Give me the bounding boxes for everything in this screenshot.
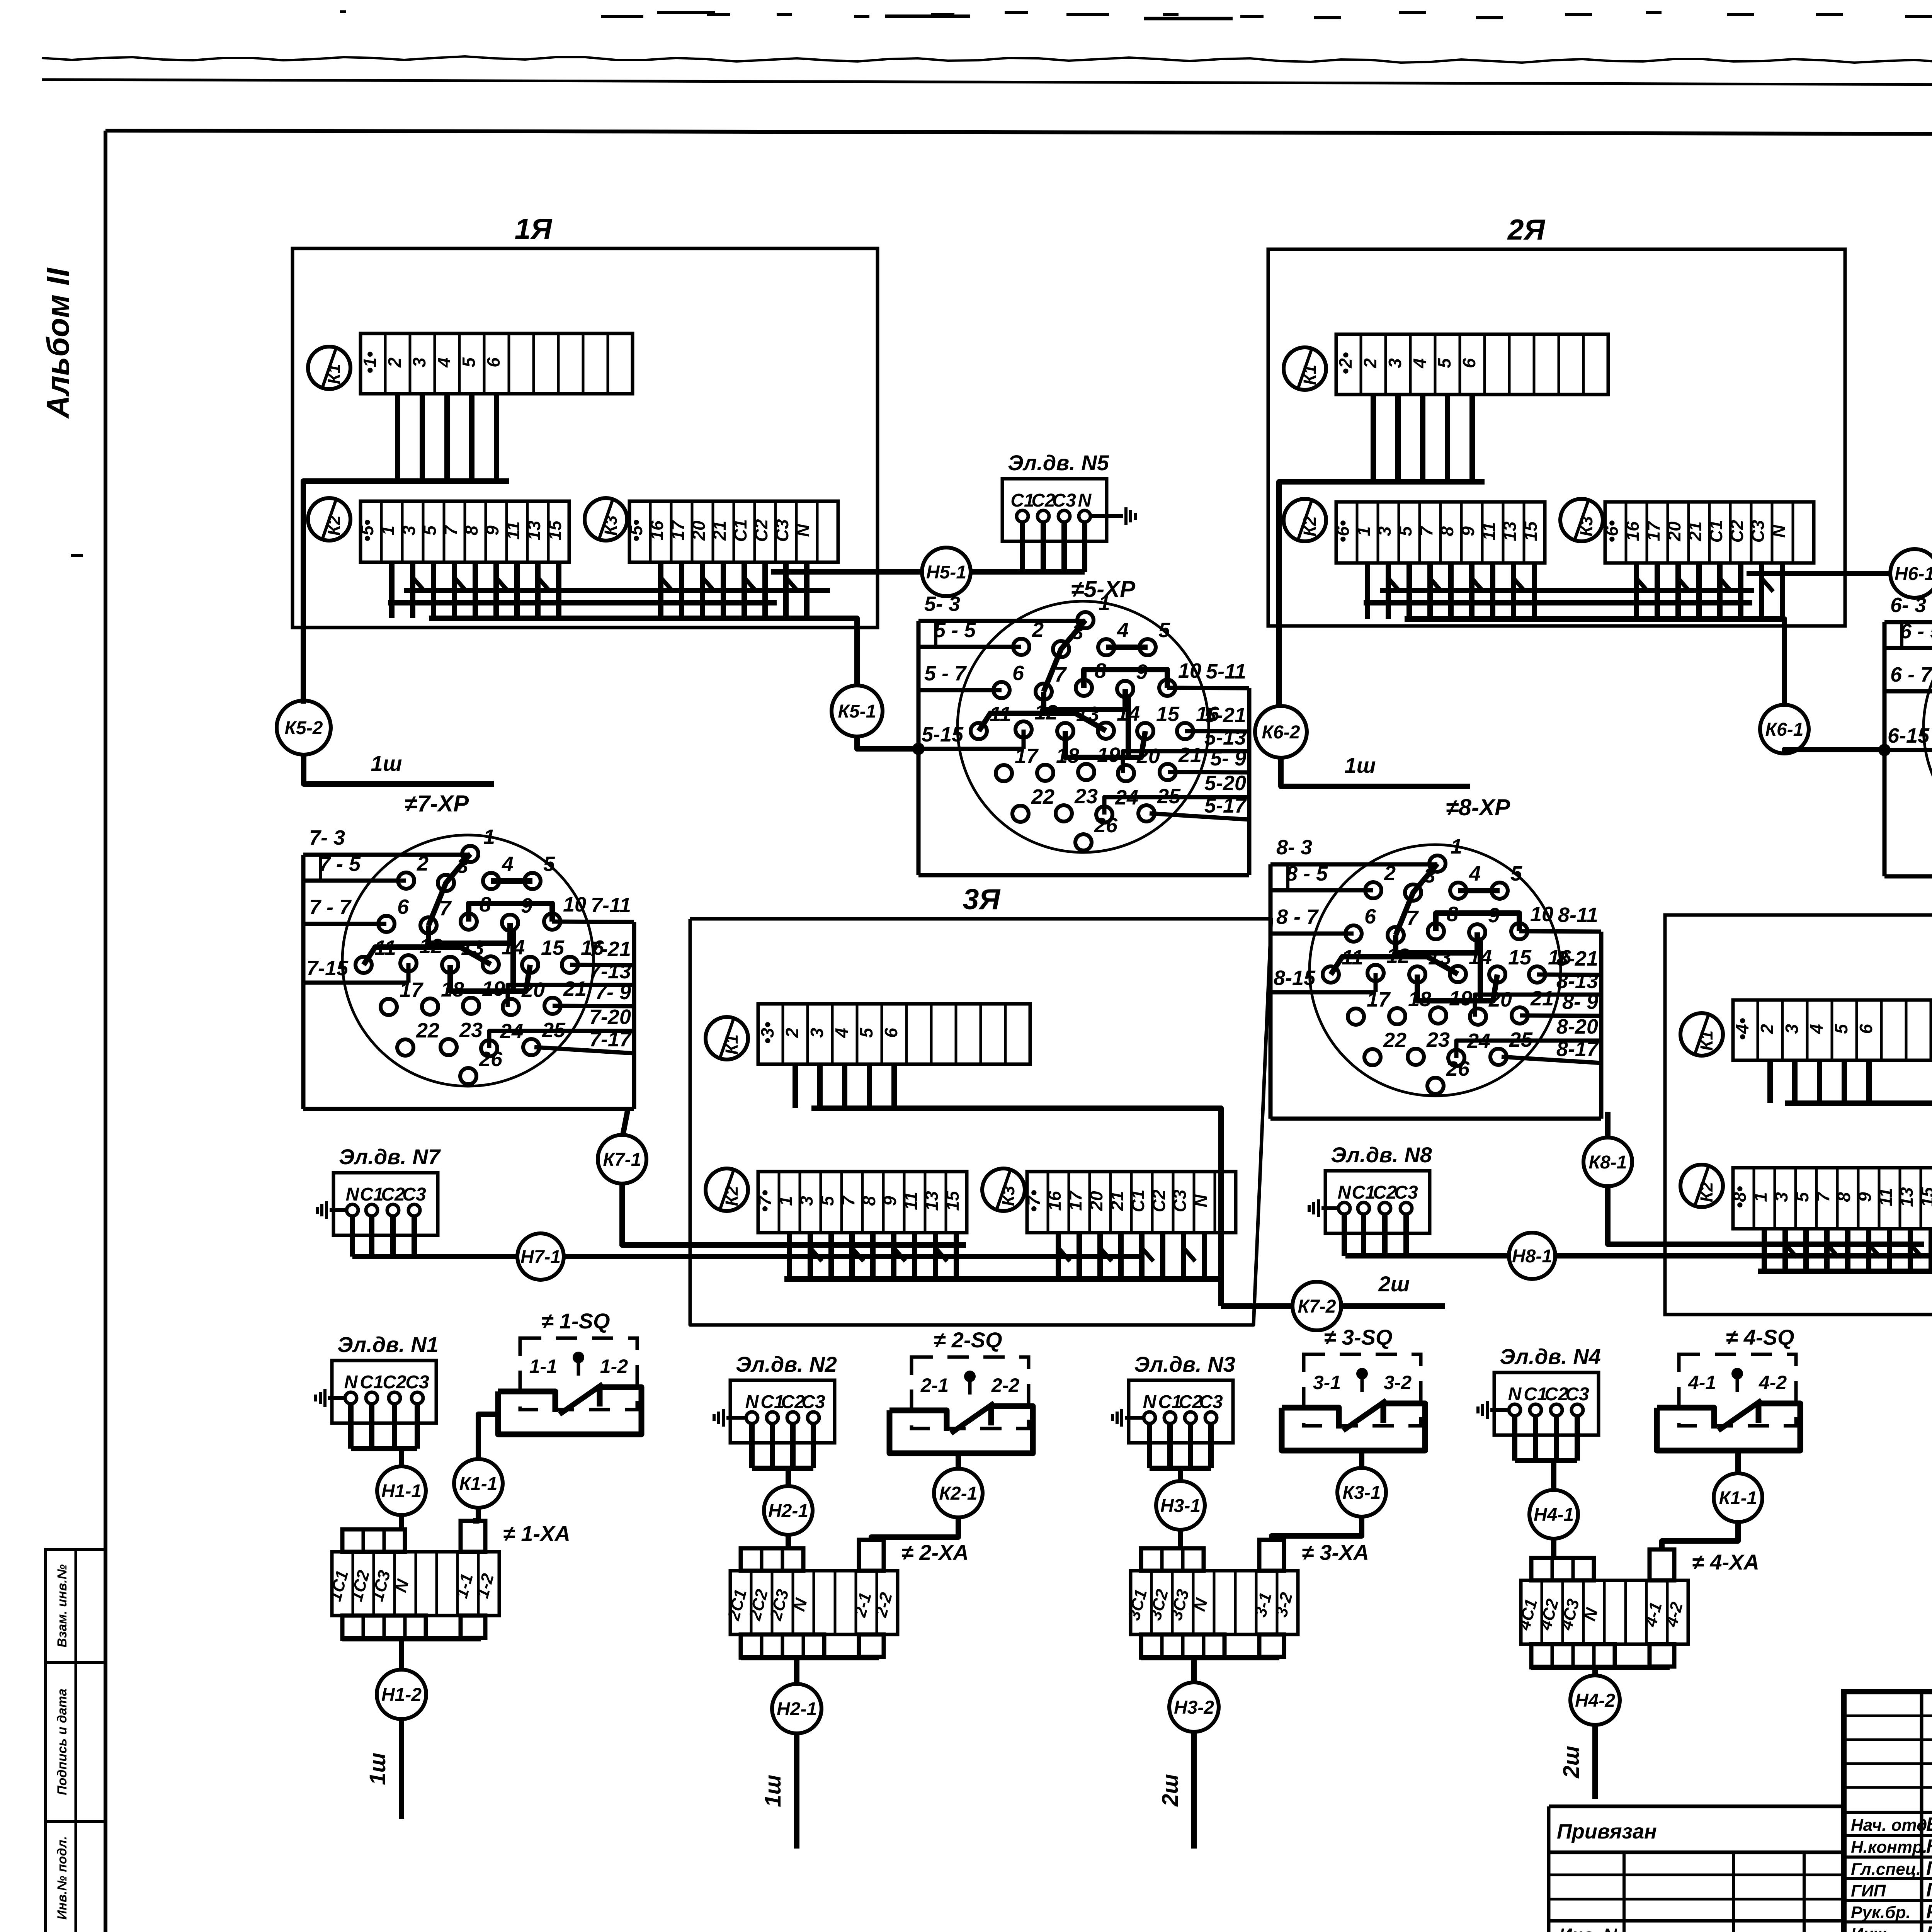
Н8-1 bus into 4Я xyxy=(1345,1253,1509,1259)
pin 14 of ≠7-ХР xyxy=(483,956,499,973)
svg-text:4: 4 xyxy=(1117,619,1129,642)
pin 21 of ≠8-ХР xyxy=(1512,1007,1528,1024)
wire below К6-2 bus 1ш xyxy=(1281,758,1470,786)
wire 5-11 from pin 10 xyxy=(1167,688,1249,688)
svg-text:5: 5 xyxy=(420,525,440,536)
svg-text:Н8-1: Н8-1 xyxy=(1512,1246,1552,1267)
top ruled line xyxy=(42,80,1932,87)
pin 10 of ≠8-ХР xyxy=(1511,923,1527,939)
pin 14 of ≠8-ХР xyxy=(1450,966,1466,982)
motor 3 gather wires xyxy=(1147,1423,1152,1468)
device circle К2 xyxy=(1284,499,1326,541)
svg-text:19: 19 xyxy=(1097,743,1120,767)
svg-text:6: 6 xyxy=(397,895,409,918)
jumper pin7-pin9 via elbow xyxy=(429,923,510,943)
title block internal verticals (sign-off columns) xyxy=(1920,1692,1923,1932)
svg-text:К6-1: К6-1 xyxy=(1765,719,1804,740)
pin 19 of ≠8-ХР xyxy=(1430,1007,1446,1024)
pin 13 of ≠8-ХР xyxy=(1409,966,1425,983)
svg-text:Нач. отд: Нач. отд xyxy=(1851,1816,1927,1835)
pin 13 of ≠5-ХР xyxy=(1057,723,1073,739)
cable marker К1-1 xyxy=(1714,1473,1762,1522)
svg-text:7- 3: 7- 3 xyxy=(309,826,345,849)
svg-text:13: 13 xyxy=(922,1191,942,1211)
svg-text:23: 23 xyxy=(1426,1028,1450,1051)
svg-text:N: N xyxy=(346,1184,360,1205)
svg-text:7: 7 xyxy=(838,1195,858,1206)
harness box right edge xyxy=(1599,932,1604,1119)
cable marker Н3-1 xyxy=(1156,1481,1205,1530)
cable marker Н3-2 xyxy=(1169,1682,1219,1732)
svg-text:11: 11 xyxy=(1342,946,1363,969)
jumper pin11-pin14 xyxy=(979,713,1106,731)
svg-text:Гл.спец.: Гл.спец. xyxy=(1851,1860,1921,1879)
pin 5 of ≠8-ХР xyxy=(1492,883,1508,899)
1Я lower bundle bus B xyxy=(404,588,830,593)
≠4-SQ contact blade xyxy=(1718,1400,1762,1430)
4Я lower bundle bus C xyxy=(1758,1269,1932,1274)
pin 10 of ≠7-ХР xyxy=(544,913,560,930)
left margin tick xyxy=(71,554,83,557)
svg-text:Эл.дв. N4: Эл.дв. N4 xyxy=(1500,1344,1601,1369)
pin 20 of ≠5-ХР xyxy=(1118,765,1134,781)
limit switch ≠4-SQ dashed box xyxy=(1679,1354,1796,1426)
pin 12 of ≠8-ХР xyxy=(1367,965,1384,981)
≠4-SQ plunger dot xyxy=(1731,1368,1743,1379)
harness box bottom edge xyxy=(303,1107,634,1111)
jumper pin11-pin14 xyxy=(1331,957,1458,975)
svg-text:11: 11 xyxy=(990,702,1011,726)
svg-text:9: 9 xyxy=(1855,1192,1875,1202)
jumper pin13-pin15 xyxy=(450,965,530,991)
svg-text:≠ 1-ХА: ≠ 1-ХА xyxy=(503,1521,570,1546)
terminal strip 2Я K3 row xyxy=(1605,502,1814,563)
≠4-ХА upper right stub xyxy=(1650,1549,1674,1580)
svg-text:2: 2 xyxy=(384,357,405,368)
wire strip to Н1-2 xyxy=(399,1639,404,1670)
svg-text:1ш: 1ш xyxy=(365,1753,390,1785)
connector ≠5-ХР body circle xyxy=(957,601,1209,852)
svg-text:11: 11 xyxy=(503,521,523,540)
svg-text:3: 3 xyxy=(796,1196,816,1206)
motor Эл.дв. N7 box xyxy=(333,1173,438,1235)
pin 1 of ≠8-ХР xyxy=(1429,855,1446,872)
pin 22 of ≠7-ХР xyxy=(397,1039,413,1056)
pin 9 of ≠8-ХР xyxy=(1469,924,1485,940)
wire 8-3 to pin 1 xyxy=(1270,862,1437,867)
2Я K1 bus wire xyxy=(1279,482,1485,705)
cable marker К8-1 xyxy=(1583,1138,1632,1186)
svg-text:21: 21 xyxy=(1685,521,1705,541)
svg-text:С1: С1 xyxy=(360,1184,383,1205)
wire 7-21 from pin 16 xyxy=(570,965,634,965)
svg-text:4: 4 xyxy=(502,852,514,876)
motor Эл.дв. N2 ground xyxy=(726,1416,746,1420)
pin 16 of ≠5-ХР xyxy=(1177,723,1193,739)
cable marker Н5-1 xyxy=(922,548,971,596)
device circle К2 xyxy=(706,1168,748,1211)
motor Эл.дв. N8 ground xyxy=(1321,1206,1338,1210)
motor 1 gather wires xyxy=(348,1404,354,1449)
svg-text:Н5-1: Н5-1 xyxy=(926,562,966,583)
svg-text:К2: К2 xyxy=(1697,1182,1716,1202)
svg-text:4: 4 xyxy=(434,357,454,368)
wire ≠7-ХР box corner to К7-1 xyxy=(623,1109,628,1135)
svg-text:7 - 5: 7 - 5 xyxy=(319,852,361,876)
svg-text:10: 10 xyxy=(563,893,586,916)
svg-text:•5•: •5• xyxy=(626,519,646,542)
svg-text:•3•: •3• xyxy=(757,1022,777,1044)
svg-text:18: 18 xyxy=(441,978,464,1001)
wire 7-13 to pin 20 xyxy=(508,985,634,1007)
cable marker Н2-1 xyxy=(764,1486,813,1535)
svg-text:5-11: 5-11 xyxy=(1206,660,1246,683)
motor 2 gather wires xyxy=(749,1423,755,1468)
svg-text:7: 7 xyxy=(1054,663,1067,686)
svg-text:≠7-ХР: ≠7-ХР xyxy=(405,791,469,816)
wire 8-13 to pin 20 xyxy=(1475,995,1601,1017)
device circle К1 xyxy=(1680,1013,1723,1056)
svg-text:22: 22 xyxy=(416,1019,439,1042)
wires below K1 strip 3Я xyxy=(793,1064,798,1108)
svg-text:26: 26 xyxy=(479,1048,503,1071)
wire 8-11 from pin 10 xyxy=(1519,931,1601,932)
svg-text:24: 24 xyxy=(500,1020,523,1043)
limit switch ≠1-SQ dashed box xyxy=(520,1338,637,1410)
jumper pin8-pin10 loop xyxy=(1084,670,1167,688)
svg-text:С2: С2 xyxy=(1544,1384,1568,1405)
svg-text:С1: С1 xyxy=(1524,1384,1547,1405)
svg-text:6 - 7: 6 - 7 xyxy=(1890,663,1932,686)
svg-text:Н3-1: Н3-1 xyxy=(1160,1496,1201,1516)
pin 25 of ≠5-ХР xyxy=(1138,805,1155,821)
jumper pin13-pin15 xyxy=(1065,731,1145,757)
svg-text:≠ 3-SQ: ≠ 3-SQ xyxy=(1324,1325,1393,1349)
svg-text:16: 16 xyxy=(581,936,604,959)
svg-text:13: 13 xyxy=(1428,946,1451,969)
svg-text:8- 9: 8- 9 xyxy=(1562,990,1598,1014)
cable marker К5-1 xyxy=(832,685,883,736)
svg-text:3: 3 xyxy=(1072,621,1083,644)
svg-text:≠ 1-SQ: ≠ 1-SQ xyxy=(542,1309,610,1333)
svg-text:9: 9 xyxy=(521,894,532,917)
svg-text:20: 20 xyxy=(689,520,709,541)
svg-text:25: 25 xyxy=(542,1019,566,1042)
≠4-ХА lower right stub xyxy=(1650,1644,1674,1667)
motor Эл.дв. N5 box xyxy=(1002,479,1107,541)
pin 26 of ≠8-ХР xyxy=(1427,1078,1444,1094)
jumper pin9 down to bus xyxy=(1478,937,1483,1001)
pin 2 of ≠8-ХР xyxy=(1365,882,1381,898)
≠3-SQ solid housing xyxy=(1282,1403,1425,1451)
wire 8-21 from pin 16 xyxy=(1537,975,1601,975)
svg-text:2: 2 xyxy=(1384,862,1396,885)
bus wire down 2ш xyxy=(1191,1732,1197,1849)
svg-text:5: 5 xyxy=(459,357,479,367)
limit switch ≠2-SQ dashed box xyxy=(912,1357,1029,1429)
svg-text:С2: С2 xyxy=(381,1184,405,1205)
svg-text:7 - 7: 7 - 7 xyxy=(309,896,352,919)
svg-text:Альбом II: Альбом II xyxy=(41,267,76,419)
svg-text:С1: С1 xyxy=(1128,1190,1148,1213)
pin 12 of ≠5-ХР xyxy=(1015,721,1032,738)
panel 2Я enclosure xyxy=(1268,249,1845,626)
device circle К3 xyxy=(1560,499,1603,541)
svg-text:2ш: 2ш xyxy=(1559,1746,1584,1779)
svg-text:13: 13 xyxy=(1076,702,1099,726)
wire 5-15 to pin 12 xyxy=(918,747,1024,751)
wire 5-20 to pin 24 xyxy=(1104,797,1249,815)
svg-text:≠ 4-ХА: ≠ 4-ХА xyxy=(1692,1550,1759,1574)
svg-text:3: 3 xyxy=(1424,864,1435,887)
terminal strip ≠2-ХА xyxy=(730,1571,898,1634)
pin 17 of ≠8-ХР xyxy=(1348,1009,1364,1025)
svg-text:С3: С3 xyxy=(1199,1392,1223,1412)
svg-text:К5-1: К5-1 xyxy=(838,701,876,722)
svg-text:С2: С2 xyxy=(751,519,771,542)
wire Н4-1 to strip xyxy=(1551,1538,1556,1558)
cable marker К1-1 xyxy=(454,1459,503,1508)
svg-text:7-15: 7-15 xyxy=(306,957,349,980)
svg-text:14: 14 xyxy=(1469,946,1492,969)
svg-text:К1: К1 xyxy=(324,364,344,384)
pin 23 of ≠5-ХР xyxy=(1056,805,1072,821)
wire 7-11 from pin 10 xyxy=(552,922,634,922)
svg-text:4: 4 xyxy=(1410,358,1430,369)
terminal strip 2Я K1 row xyxy=(1336,334,1608,395)
svg-text:8: 8 xyxy=(1447,903,1458,926)
harness box right edge xyxy=(1247,688,1252,875)
svg-text:23: 23 xyxy=(1074,785,1098,808)
svg-text:17: 17 xyxy=(1015,745,1039,768)
pin 1 of ≠5-ХР xyxy=(1077,612,1094,628)
svg-text:1: 1 xyxy=(1354,526,1374,536)
≠3-ХА bottom gather bar xyxy=(1141,1655,1279,1660)
title block named rows xyxy=(1844,1811,1932,1814)
terminal strip 1Я K2 row xyxy=(361,501,569,562)
svg-text:3: 3 xyxy=(1771,1192,1791,1202)
pin 6 of ≠7-ХР xyxy=(378,916,395,932)
pin 8 of ≠7-ХР xyxy=(461,913,477,930)
pin 22 of ≠8-ХР xyxy=(1364,1049,1381,1065)
wire 5-3 to pin 1 xyxy=(918,619,1085,623)
≠2-SQ plunger dot xyxy=(964,1371,976,1382)
device circle К2 xyxy=(308,498,350,541)
svg-text:15: 15 xyxy=(1917,1187,1932,1207)
motor Эл.дв. N5 ground xyxy=(1090,514,1123,518)
connector ≠5-ХР harness box left edge xyxy=(917,621,921,875)
pin 6 of ≠5-ХР xyxy=(993,682,1010,698)
svg-text:Эл.дв. N5: Эл.дв. N5 xyxy=(1008,451,1109,475)
pin 11 of ≠5-ХР xyxy=(971,723,987,739)
svg-text:23: 23 xyxy=(459,1019,483,1042)
svg-text:22: 22 xyxy=(1383,1029,1406,1052)
svg-text:К3: К3 xyxy=(601,515,621,536)
2Я bus to Н6-1 xyxy=(1747,571,1891,576)
≠1-ХА lower right stub xyxy=(461,1616,485,1638)
cable marker К3-1 xyxy=(1337,1468,1386,1517)
svg-text:21: 21 xyxy=(563,977,587,1000)
cable marker К7-2 xyxy=(1293,1282,1341,1330)
svg-text:Взам. инв.№: Взам. инв.№ xyxy=(55,1564,70,1647)
wire 6-15 to pin 12 xyxy=(1884,748,1932,752)
cable marker Н4-2 xyxy=(1570,1675,1620,1725)
svg-text:8 - 5: 8 - 5 xyxy=(1286,862,1328,885)
motor Эл.дв. N4 ground xyxy=(1490,1408,1509,1412)
svg-text:3-2: 3-2 xyxy=(1384,1372,1412,1393)
wire ≠3-SQ to К circle xyxy=(1359,1451,1364,1468)
svg-text:5: 5 xyxy=(1831,1024,1851,1034)
svg-text:3: 3 xyxy=(457,854,468,878)
svg-text:5-17: 5-17 xyxy=(1204,794,1247,817)
svg-text:К1: К1 xyxy=(1300,365,1320,385)
svg-text:Эл.дв. N2: Эл.дв. N2 xyxy=(736,1352,837,1376)
svg-text:7- 9: 7- 9 xyxy=(595,981,631,1004)
jumper pin13-pin15 xyxy=(1417,975,1497,1001)
wire strip to Н4-2 xyxy=(1592,1667,1598,1675)
jumper pin7-pin9 via elbow xyxy=(1396,932,1477,953)
svg-text:С3: С3 xyxy=(402,1184,426,1205)
svg-text:17: 17 xyxy=(400,978,424,1002)
svg-text:17: 17 xyxy=(1367,988,1391,1011)
svg-text:С2: С2 xyxy=(1373,1182,1397,1203)
svg-text:3: 3 xyxy=(399,526,419,536)
device circle К3 xyxy=(982,1168,1025,1211)
svg-text:13: 13 xyxy=(1500,521,1520,541)
svg-text:25: 25 xyxy=(1157,785,1181,808)
svg-text:Болотов: Болотов xyxy=(1926,1813,1932,1835)
svg-text:9: 9 xyxy=(482,526,502,536)
wire 5-5 to pin 2 xyxy=(918,645,1021,649)
svg-text:6: 6 xyxy=(1459,358,1479,368)
svg-text:К6-2: К6-2 xyxy=(1262,722,1300,743)
svg-text:24: 24 xyxy=(1467,1029,1490,1053)
svg-text:N: N xyxy=(344,1372,358,1393)
jumper pin9 down to bus xyxy=(510,928,516,991)
3Я exit wire to К7-2 xyxy=(1221,1303,1293,1309)
pin 8 of ≠5-ХР xyxy=(1076,680,1092,696)
wire К circle to strip xyxy=(1272,1516,1362,1540)
svg-text:К2: К2 xyxy=(722,1186,742,1206)
1Я bottom bundle bus xyxy=(429,618,857,687)
cable marker Н1-2 xyxy=(377,1670,426,1719)
wire 7-3 to pin 1 xyxy=(303,853,470,857)
≠3-SQ plunger dot xyxy=(1356,1368,1368,1379)
wire stubs below K2 strip 1Я xyxy=(389,562,395,618)
svg-text:С3: С3 xyxy=(405,1372,429,1393)
svg-text:1-2: 1-2 xyxy=(600,1355,628,1377)
svg-text:1-1: 1-1 xyxy=(529,1355,557,1377)
svg-text:2-1: 2-1 xyxy=(920,1374,949,1396)
svg-text:8-11: 8-11 xyxy=(1558,903,1598,927)
motor Эл.дв. N3 box xyxy=(1129,1380,1233,1443)
svg-text:8 - 7: 8 - 7 xyxy=(1276,905,1319,929)
wire 7-15 to pin 12 xyxy=(303,981,408,985)
≠1-ХА bottom gather bar xyxy=(342,1636,481,1641)
svg-text:К2: К2 xyxy=(324,515,344,536)
svg-text:12: 12 xyxy=(1034,701,1058,724)
svg-text:6: 6 xyxy=(1364,905,1376,928)
wire 5-13 to pin 20 xyxy=(1123,751,1249,773)
svg-text:3: 3 xyxy=(1782,1024,1802,1034)
svg-text:20: 20 xyxy=(521,978,545,1002)
device circle К1 xyxy=(308,347,350,389)
svg-text:С1: С1 xyxy=(1352,1182,1375,1203)
svg-text:6: 6 xyxy=(1856,1024,1876,1034)
wire 6-7 to pin 6 xyxy=(1884,689,1932,694)
svg-text:2: 2 xyxy=(1757,1024,1777,1034)
wire 6-3 to pin 1 xyxy=(1884,620,1932,624)
svg-text:7-17: 7-17 xyxy=(589,1028,632,1051)
svg-text:18: 18 xyxy=(1408,988,1431,1011)
wire stubs below K3 strip 2Я xyxy=(1634,563,1639,619)
svg-text:•1•: •1• xyxy=(360,351,380,374)
svg-text:5: 5 xyxy=(1158,619,1170,642)
svg-text:Н4-2: Н4-2 xyxy=(1575,1690,1615,1711)
harness box bottom edge xyxy=(918,873,1249,878)
svg-text:5-15: 5-15 xyxy=(922,723,964,746)
svg-text:К7-1: К7-1 xyxy=(603,1150,641,1170)
wire К circle to strip xyxy=(1662,1522,1738,1549)
svg-text:•6•: •6• xyxy=(1333,520,1353,543)
≠2-ХА lower stubs xyxy=(741,1634,824,1658)
К7-1 bus into 3Я xyxy=(622,1184,966,1245)
svg-text:1: 1 xyxy=(1099,592,1110,615)
wire 7-5 to pin 2 xyxy=(303,879,406,883)
svg-text:3: 3 xyxy=(409,357,429,367)
svg-text:Эл.дв. N3: Эл.дв. N3 xyxy=(1134,1352,1235,1376)
pin 4 of ≠5-ХР xyxy=(1098,639,1114,655)
svg-text:5-13: 5-13 xyxy=(1204,726,1246,749)
svg-text:7: 7 xyxy=(439,897,452,920)
pin 20 of ≠7-ХР xyxy=(503,999,519,1015)
svg-text:Подпись и дата: Подпись и дата xyxy=(55,1689,70,1795)
svg-text:2: 2 xyxy=(782,1028,802,1038)
svg-text:К1: К1 xyxy=(722,1034,742,1055)
pin 18 of ≠5-ХР xyxy=(1037,765,1053,781)
pin 5 of ≠7-ХР xyxy=(524,873,541,889)
connector ≠6-ХР body circle xyxy=(1923,602,1932,854)
svg-text:1Я: 1Я xyxy=(515,213,553,245)
≠1-ХА upper stubs xyxy=(342,1529,405,1552)
svg-text:2: 2 xyxy=(1032,618,1044,641)
svg-text:•6•: •6• xyxy=(1602,520,1622,543)
≠4-SQ solid housing xyxy=(1657,1403,1800,1451)
≠2-ХА upper right stub xyxy=(859,1540,884,1571)
svg-text:С3: С3 xyxy=(1565,1384,1589,1405)
svg-text:21: 21 xyxy=(1178,743,1202,767)
pin 14 of ≠5-ХР xyxy=(1098,723,1114,739)
svg-text:Паволоцкий: Паволоцкий xyxy=(1926,1879,1932,1901)
svg-text:7-11: 7-11 xyxy=(591,894,631,917)
svg-text:9: 9 xyxy=(1136,660,1148,684)
svg-text:8-17: 8-17 xyxy=(1556,1037,1599,1061)
harness box bottom edge xyxy=(1884,874,1932,879)
cable marker К6-2 xyxy=(1255,706,1307,758)
≠4-ХА bottom gather bar xyxy=(1531,1665,1670,1670)
pin 19 of ≠5-ХР xyxy=(1078,764,1094,780)
svg-text:8- 3: 8- 3 xyxy=(1276,836,1312,859)
motor Эл.дв. N1 box xyxy=(332,1361,436,1423)
svg-text:12: 12 xyxy=(1386,944,1410,968)
panel 3Я enclosure xyxy=(690,919,1271,1325)
svg-text:Евтеева: Евтеева xyxy=(1926,1922,1932,1932)
svg-text:К3: К3 xyxy=(998,1186,1018,1206)
left frame stamp: Взам. инв.№ xyxy=(46,1549,105,1662)
≠3-SQ contact blade xyxy=(1343,1400,1386,1430)
≠4-ХА upper stubs xyxy=(1531,1558,1594,1580)
svg-text:6-15: 6-15 xyxy=(1888,724,1930,747)
